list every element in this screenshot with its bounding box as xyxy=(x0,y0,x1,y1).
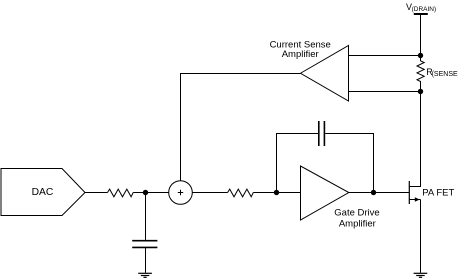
svg-text:DAC: DAC xyxy=(32,187,54,198)
resistor R2 xyxy=(228,189,254,197)
DAC block xyxy=(1,169,85,216)
svg-text:(DRAIN): (DRAIN) xyxy=(412,6,437,13)
node drain junction dot xyxy=(418,53,423,58)
svg-text:Amplifier: Amplifier xyxy=(339,219,376,230)
capacitor C2 feedback xyxy=(319,121,325,146)
wire node A to capacitor C1 xyxy=(145,193,147,241)
wire DAC output xyxy=(85,192,108,194)
resistor R1 xyxy=(108,189,134,197)
node A junction dot xyxy=(143,190,148,195)
op-amp U2 gate drive amplifier xyxy=(301,166,349,220)
op-amp U1 current sense amplifier xyxy=(301,46,349,102)
label R(SENSE) xyxy=(426,67,458,78)
resistor R(SENSE) xyxy=(417,56,424,92)
wire GDA output to FET gate xyxy=(349,192,410,194)
svg-text:PA FET: PA FET xyxy=(422,187,454,198)
capacitor C1 xyxy=(132,241,157,248)
supply V(DRAIN) xyxy=(406,2,436,14)
wire PA FET source to ground xyxy=(420,200,422,273)
label Gate Drive Amplifier xyxy=(334,207,379,229)
label Current Sense Amplifier xyxy=(270,39,331,59)
wire summing junction to R2 xyxy=(192,192,227,194)
wire summing junction up to current sense amp output xyxy=(181,74,301,181)
node B junction dot xyxy=(274,190,279,195)
svg-text:Amplifier: Amplifier xyxy=(282,49,319,60)
wire supply to drain node xyxy=(420,15,422,56)
wire sense node to PA FET drain xyxy=(409,92,420,187)
ground (below C1) xyxy=(138,273,152,277)
node sense junction dot xyxy=(418,89,423,94)
ground (below PA FET) xyxy=(414,273,428,277)
svg-text:(SENSE): (SENSE) xyxy=(432,71,458,78)
wire R2 to gate drive amp input xyxy=(253,192,300,194)
wire feedback right branch xyxy=(325,134,373,193)
wire feedback left branch xyxy=(277,134,319,193)
svg-text:Gate Drive: Gate Drive xyxy=(334,207,379,218)
summing junction U3 xyxy=(169,181,193,205)
node C junction dot xyxy=(371,190,376,195)
wire C1 to ground xyxy=(145,248,147,273)
wire R1 to summing node A xyxy=(133,192,169,194)
wire CSA lower input to sense node xyxy=(349,91,421,93)
wire CSA upper input to drain node xyxy=(349,55,421,57)
transistor Q1 PA FET xyxy=(409,181,420,204)
